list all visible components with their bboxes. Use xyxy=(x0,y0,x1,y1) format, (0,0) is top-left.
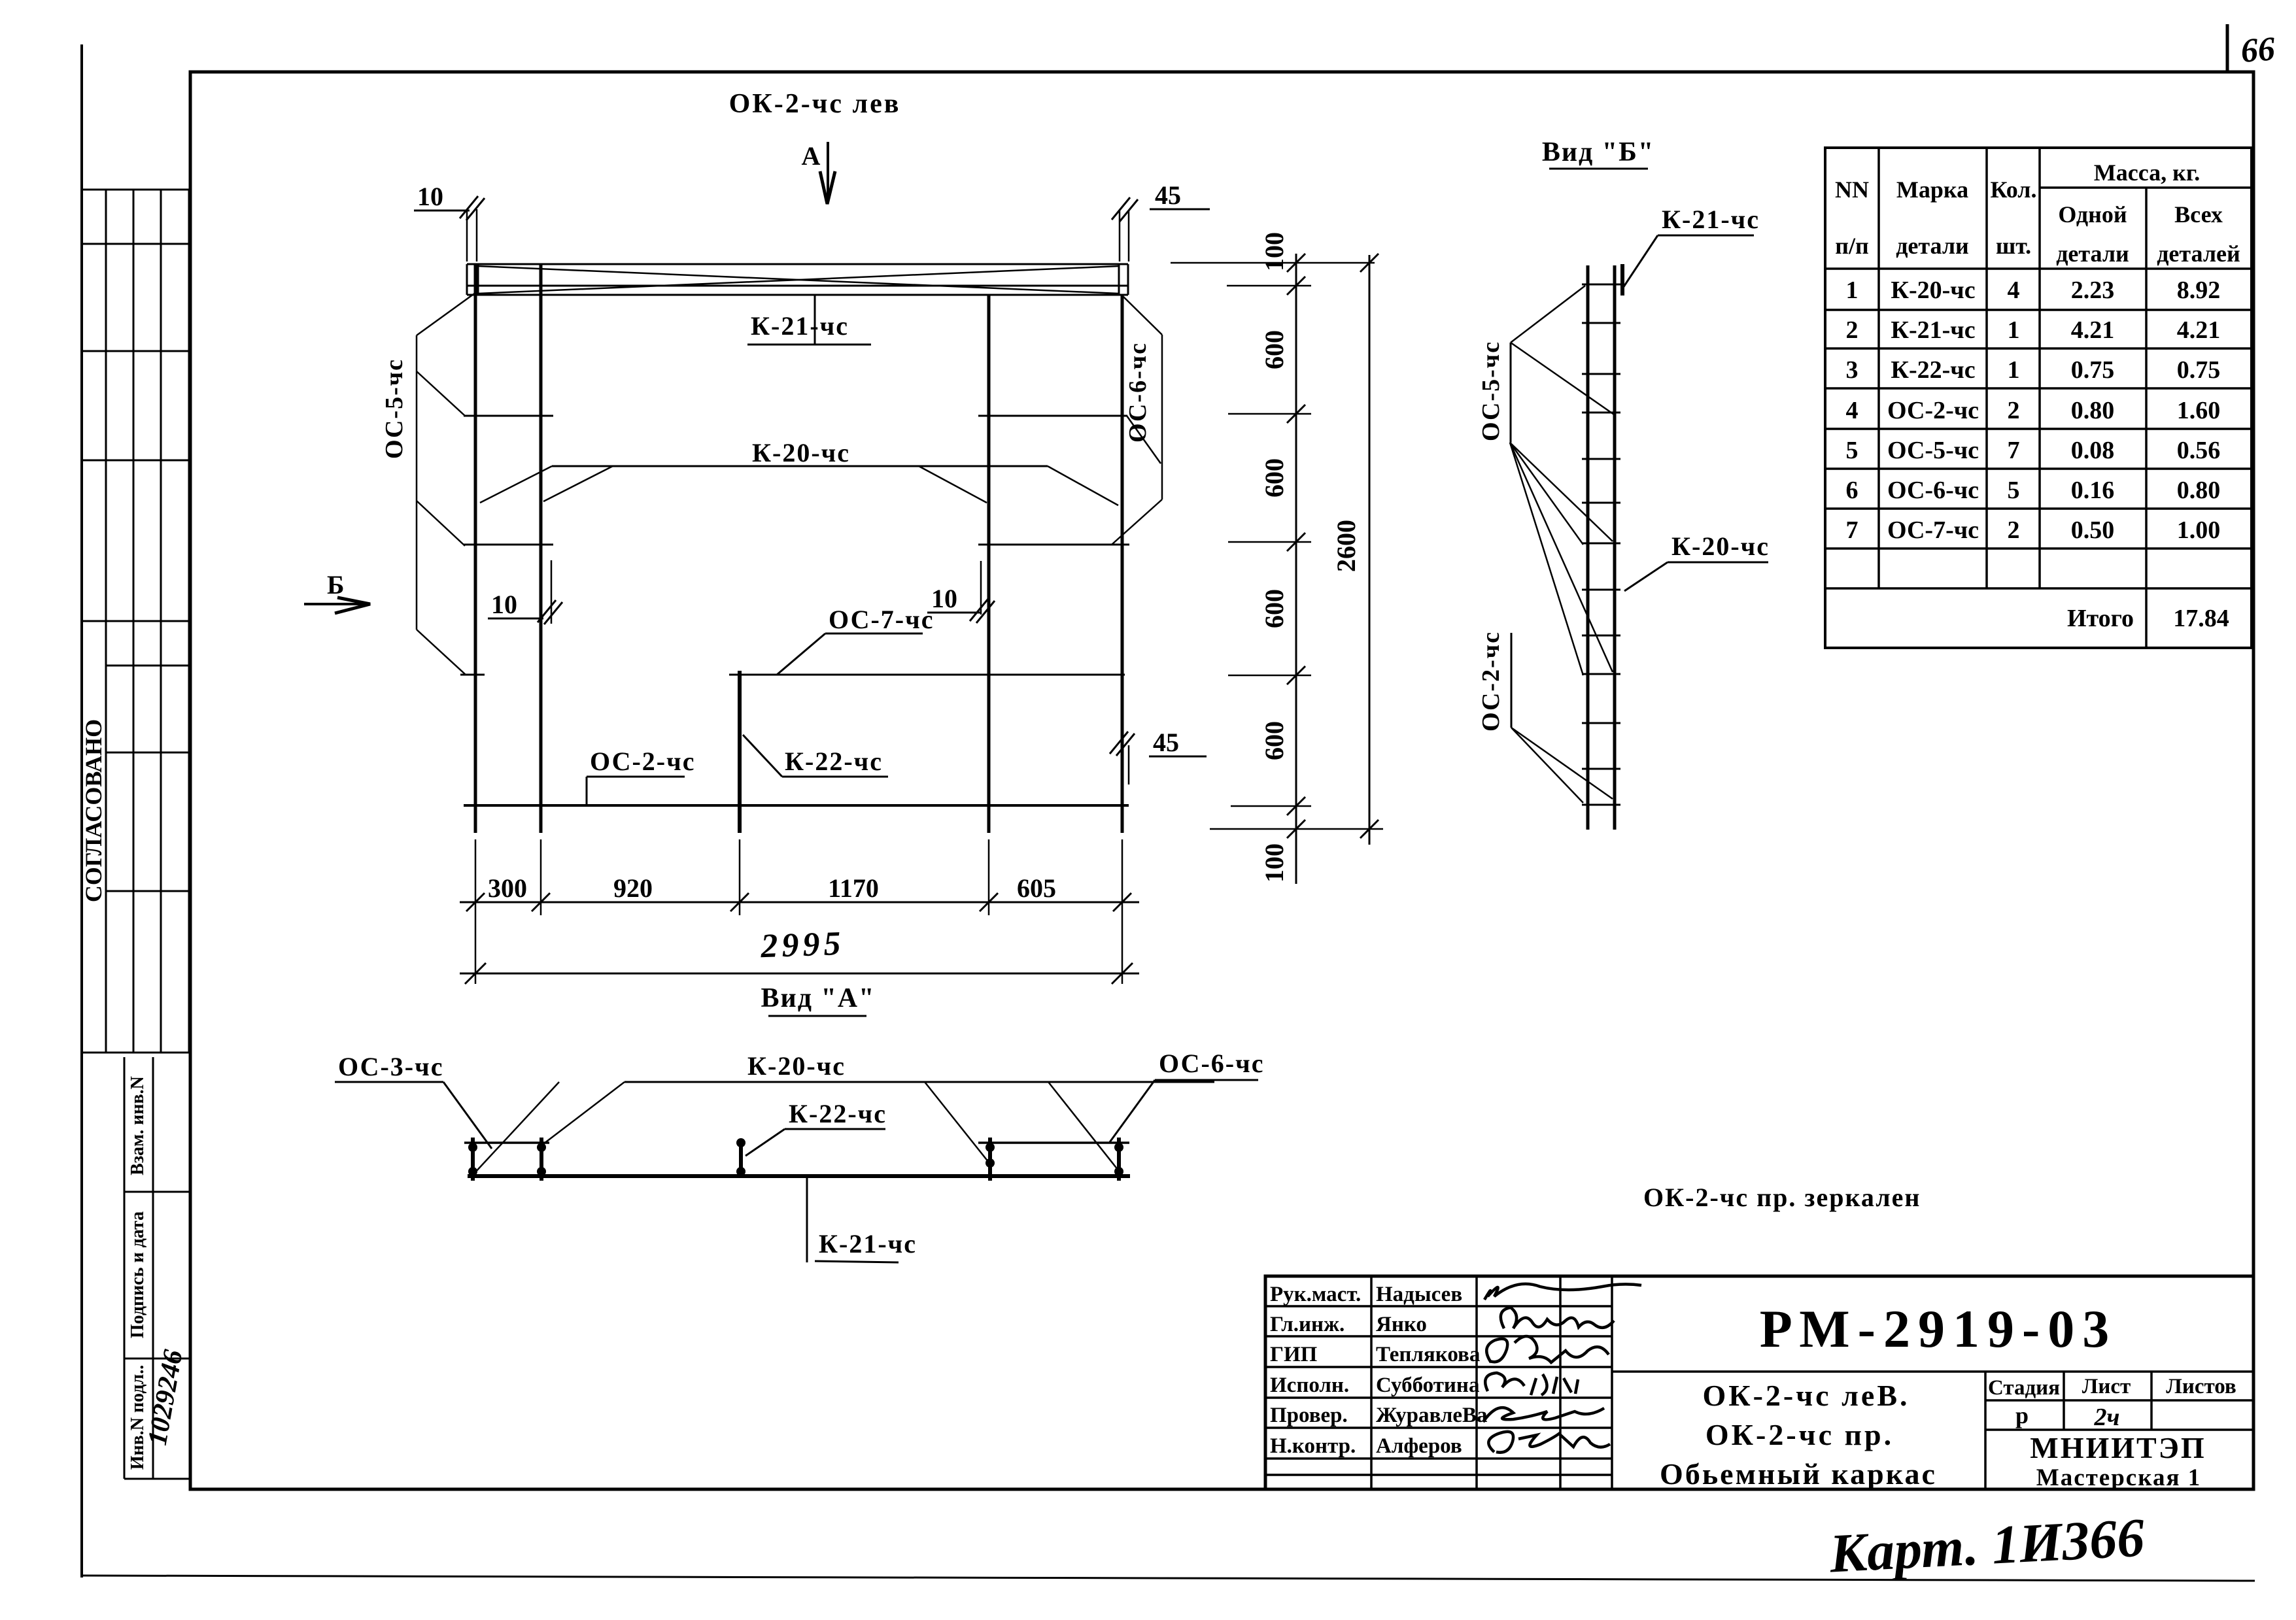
left margin stamp: full horizontals xyxy=(82,190,190,1053)
leader ОС-6-чс view A xyxy=(1110,1080,1155,1142)
svg-text:К-20-чс: К-20-чс xyxy=(1891,277,1975,304)
view A right box ticks xyxy=(988,1138,992,1181)
top beam left cap xyxy=(466,264,468,295)
svg-text:45: 45 xyxy=(1153,728,1179,757)
svg-text:1: 1 xyxy=(1846,277,1859,304)
lintel slant right outer xyxy=(1048,466,1118,505)
leader ОС-2-чс xyxy=(586,777,588,805)
right bracket OC-6: top slant xyxy=(1123,297,1162,335)
dim 10 mid-left extension line xyxy=(551,560,553,624)
svg-text:10: 10 xyxy=(931,584,957,613)
svg-text:Инв.N подл..: Инв.N подл.. xyxy=(128,1365,148,1470)
svg-text:10: 10 xyxy=(491,590,517,619)
svg-text:ОС-5-чс: ОС-5-чс xyxy=(1477,341,1505,441)
svg-text:1: 1 xyxy=(2008,316,2020,344)
svg-text:К-20-чс: К-20-чс xyxy=(1671,532,1770,561)
svg-text:Итого: Итого xyxy=(2067,605,2134,632)
svg-text:2ч: 2ч xyxy=(2094,1404,2120,1431)
signature squiggle Теплякова xyxy=(1486,1336,1609,1362)
lintel slant left inner xyxy=(543,466,613,501)
svg-text:0.56: 0.56 xyxy=(2177,437,2221,464)
svg-text:1170: 1170 xyxy=(828,873,879,903)
svg-text:Рук.маст.: Рук.маст. xyxy=(1270,1283,1361,1306)
svg-text:МНИИТЭП: МНИИТЭП xyxy=(2030,1431,2206,1464)
parts table column verticals xyxy=(1879,148,2146,648)
svg-text:Мастерская 1: Мастерская 1 xyxy=(2036,1464,2201,1491)
left bracket OC-5: outer vertical xyxy=(416,335,418,630)
left bracket OC-5: inner slant lower xyxy=(417,501,465,546)
svg-text:3: 3 xyxy=(1846,356,1859,384)
window line upper right xyxy=(978,415,1127,417)
view A top line xyxy=(625,1081,1214,1083)
view A bottom plate K-21 xyxy=(468,1174,1130,1178)
window line upper left xyxy=(464,415,553,417)
leader К-21-чс xyxy=(814,295,816,345)
svg-text:66: 66 xyxy=(2240,30,2276,69)
leader К-22-чс xyxy=(743,735,782,777)
svg-text:5: 5 xyxy=(1846,437,1859,464)
sill line OC-7 xyxy=(729,674,1125,676)
signature squiggle Журавлева xyxy=(1483,1408,1604,1422)
ОС-5-чс leaders lower bundle xyxy=(1510,443,1583,545)
svg-text:ОС-6-чс: ОС-6-чс xyxy=(1159,1049,1264,1078)
svg-text:0.08: 0.08 xyxy=(2071,437,2115,464)
leader К-21-чс view A xyxy=(806,1177,808,1262)
ОС-5-чс leaders upper bundle xyxy=(1511,286,1585,343)
svg-text:ГИП: ГИП xyxy=(1270,1343,1318,1366)
svg-text:р: р xyxy=(2015,1402,2029,1428)
leader К-22-чс view A xyxy=(745,1129,785,1156)
svg-text:детали: детали xyxy=(1896,233,1969,259)
svg-text:2: 2 xyxy=(1846,316,1859,344)
svg-text:А: А xyxy=(802,141,821,171)
svg-text:2600: 2600 xyxy=(1331,520,1361,572)
sill stub at left column xyxy=(460,674,485,676)
right bracket OC-6: inner slant xyxy=(1127,416,1161,464)
svg-text:2.23: 2.23 xyxy=(2071,277,2115,304)
table row 7 xyxy=(1846,516,2221,544)
lintel K-20-chs xyxy=(552,465,1048,467)
view A slant left a xyxy=(474,1082,559,1173)
svg-text:Обьемный каркас: Обьемный каркас xyxy=(1660,1457,1937,1491)
table row 6 xyxy=(1846,477,2221,504)
svg-text:Б: Б xyxy=(327,570,344,599)
page left edge line xyxy=(80,44,83,1578)
svg-text:ОС-2-чс: ОС-2-чс xyxy=(1887,397,1979,424)
svg-text:10: 10 xyxy=(417,182,443,211)
svg-text:ЖуравлеВа: ЖуравлеВа xyxy=(1376,1404,1488,1427)
svg-text:2: 2 xyxy=(2008,516,2020,544)
window line lower right xyxy=(978,544,1129,546)
column C4 xyxy=(987,295,991,833)
leader ОС-7-чс xyxy=(777,633,825,675)
svg-text:Листов: Листов xyxy=(2166,1375,2236,1398)
svg-text:Гл.инж.: Гл.инж. xyxy=(1270,1313,1345,1336)
top beam top line xyxy=(467,263,1128,265)
left margin stamp: partial horizontals beside vertical text xyxy=(106,666,190,891)
lintel slant left outer xyxy=(480,466,552,503)
dim 45 top-right extension lines xyxy=(1119,211,1121,262)
svg-text:2: 2 xyxy=(2008,397,2020,424)
svg-text:детали: детали xyxy=(2056,241,2129,267)
left bracket OC-5: inner slant upper xyxy=(417,371,465,416)
top beam middle line xyxy=(467,285,1128,287)
view A corner dots xyxy=(468,1143,1123,1176)
svg-text:Всех: Всех xyxy=(2174,201,2223,228)
svg-text:деталей: деталей xyxy=(2157,241,2240,267)
svg-text:ОС-6-чс: ОС-6-чс xyxy=(1887,477,1979,504)
svg-text:К-21-чс: К-21-чс xyxy=(819,1229,917,1258)
svg-text:Стадия: Стадия xyxy=(1988,1376,2060,1400)
section arrow A xyxy=(827,142,829,203)
left bracket OC-5: top slant xyxy=(417,291,478,335)
ticks row1 xyxy=(466,893,1131,911)
svg-text:8.92: 8.92 xyxy=(2177,277,2221,304)
svg-text:ОС-6-чс: ОС-6-чс xyxy=(1124,342,1152,443)
svg-text:шт.: шт. xyxy=(1996,233,2031,259)
view A slant right a xyxy=(925,1082,989,1162)
view A left box top edge xyxy=(464,1141,549,1144)
ladder right rail xyxy=(1613,265,1617,830)
svg-text:Н.контр.: Н.контр. xyxy=(1270,1434,1356,1458)
table row 5 xyxy=(1846,437,2221,464)
table row 4 xyxy=(1846,397,2221,424)
svg-text:К-21-чс: К-21-чс xyxy=(751,311,849,341)
title block outer border xyxy=(1265,1276,2253,1489)
parts table row lines xyxy=(1825,269,2252,588)
parts table outer border xyxy=(1825,148,2252,648)
svg-text:4: 4 xyxy=(2008,277,2020,304)
svg-text:ОС-3-чс: ОС-3-чс xyxy=(338,1052,443,1081)
view A right box top edge xyxy=(978,1141,1129,1144)
right vertical dim chain xyxy=(1295,254,1297,884)
svg-text:1.00: 1.00 xyxy=(2177,516,2221,544)
ladder left rail xyxy=(1586,265,1590,830)
svg-text:300: 300 xyxy=(488,873,527,903)
window line lower left xyxy=(464,544,553,546)
signature squiggle Янко xyxy=(1501,1308,1614,1328)
right bracket OC-6: bottom slant xyxy=(1112,499,1162,545)
bottom chord xyxy=(464,804,1129,807)
svg-text:Кол.: Кол. xyxy=(1990,177,2036,203)
right bracket OC-6: outer vertical xyxy=(1161,335,1163,499)
title block verticals xyxy=(1371,1276,2151,1489)
ladder rungs xyxy=(1582,284,1620,805)
К-22 column mark view A xyxy=(739,1139,743,1175)
svg-text:7: 7 xyxy=(1846,516,1859,544)
chain ticks xyxy=(1287,254,1305,838)
left margin stamp: column verticals xyxy=(106,190,189,1053)
svg-text:ОК-2-чс пр.: ОК-2-чс пр. xyxy=(1705,1418,1894,1451)
svg-text:ОК-2-чс пр. зеркален: ОК-2-чс пр. зеркален xyxy=(1643,1183,1921,1212)
svg-text:4.21: 4.21 xyxy=(2177,316,2221,344)
svg-text:0.75: 0.75 xyxy=(2177,356,2221,384)
dim 45 right-low extension line xyxy=(1128,745,1130,785)
sheet corner tick xyxy=(2226,24,2229,72)
view A slant left b xyxy=(541,1082,625,1145)
signature rows labels xyxy=(1270,1283,1488,1458)
table row 3 xyxy=(1846,356,2221,384)
svg-text:Одной: Одной xyxy=(2058,201,2127,228)
svg-text:1: 1 xyxy=(2008,356,2020,384)
section arrow B xyxy=(304,603,369,605)
title block horizontals left xyxy=(1265,1306,1612,1475)
svg-text:Алферов: Алферов xyxy=(1376,1434,1462,1458)
svg-text:Лист: Лист xyxy=(2082,1375,2131,1398)
svg-text:100: 100 xyxy=(1259,232,1289,271)
table row 2 xyxy=(1846,316,2221,344)
column C5 xyxy=(1121,295,1124,833)
svg-text:7: 7 xyxy=(2008,437,2020,464)
page bottom edge line xyxy=(82,1576,2255,1581)
leader К-20-чс view B xyxy=(1624,562,1668,591)
svg-text:Провер.: Провер. xyxy=(1270,1404,1348,1427)
K-21 end plate xyxy=(1620,264,1624,295)
svg-text:ОС-7-чс: ОС-7-чс xyxy=(829,605,934,634)
signature squiggle Субботина xyxy=(1485,1373,1578,1395)
left margin bottom block cells xyxy=(124,1057,190,1479)
bottom dimension line row2 overall xyxy=(460,973,1139,975)
column C3 middle short xyxy=(738,671,742,833)
view A slant right b xyxy=(1048,1082,1118,1170)
top beam bottom line xyxy=(467,294,1128,296)
svg-text:920: 920 xyxy=(613,873,653,903)
svg-text:0.50: 0.50 xyxy=(2071,516,2115,544)
svg-text:Масса, кг.: Масса, кг. xyxy=(2094,160,2200,186)
svg-text:К-20-чс: К-20-чс xyxy=(752,438,850,467)
svg-text:4.21: 4.21 xyxy=(2071,316,2115,344)
signature squiggle Алферов xyxy=(1488,1432,1610,1453)
svg-text:600: 600 xyxy=(1259,330,1289,369)
svg-text:К-21-чс: К-21-чс xyxy=(1662,205,1760,234)
svg-text:Исполн.: Исполн. xyxy=(1270,1374,1349,1397)
left bracket OC-5: bottom slant xyxy=(417,630,466,675)
svg-text:Вид "Б": Вид "Б" xyxy=(1542,137,1654,167)
overall chain 2600 xyxy=(1369,255,1371,845)
column C2 xyxy=(540,264,543,833)
svg-text:600: 600 xyxy=(1259,589,1289,628)
dim 10 top-left extension lines xyxy=(466,209,468,262)
svg-text:Подпись и дата: Подпись и дата xyxy=(128,1211,148,1338)
column C1 xyxy=(474,264,477,833)
parts table header split line xyxy=(2040,186,2252,189)
svg-text:Теплякова: Теплякова xyxy=(1376,1343,1480,1366)
lintel slant right inner xyxy=(919,466,987,503)
bottom dim extension lines xyxy=(475,839,1122,984)
svg-text:0.80: 0.80 xyxy=(2071,397,2115,424)
chain extension lines xyxy=(1171,263,1383,829)
svg-text:0.16: 0.16 xyxy=(2071,477,2115,504)
svg-text:5: 5 xyxy=(2008,477,2020,504)
svg-text:100: 100 xyxy=(1259,843,1289,883)
svg-text:К-20-чс: К-20-чс xyxy=(747,1051,846,1081)
leader ОС-3-чс xyxy=(443,1082,492,1149)
svg-text:Надысев: Надысев xyxy=(1376,1283,1462,1306)
svg-text:РМ-2919-03: РМ-2919-03 xyxy=(1760,1299,2117,1358)
svg-text:ОС-2-чс: ОС-2-чс xyxy=(590,747,695,776)
leader К-21-чс view B xyxy=(1623,235,1658,288)
svg-text:17.84: 17.84 xyxy=(2173,605,2229,632)
top beam right cap xyxy=(1118,264,1120,295)
svg-text:ОК-2-чс лев: ОК-2-чс лев xyxy=(729,89,901,119)
svg-text:п/п: п/п xyxy=(1835,233,1869,259)
svg-text:6: 6 xyxy=(1846,477,1859,504)
svg-text:0.75: 0.75 xyxy=(2071,356,2115,384)
svg-text:2995: 2995 xyxy=(759,925,845,965)
signature squiggle Надысев xyxy=(1484,1284,1641,1300)
svg-text:Марка: Марка xyxy=(1896,177,1968,203)
svg-text:ОС-2-чс: ОС-2-чс xyxy=(1477,631,1505,732)
svg-text:Янко: Янко xyxy=(1376,1313,1427,1336)
svg-text:ОС-7-чс: ОС-7-чс xyxy=(1887,516,1979,544)
drawing frame xyxy=(190,72,2253,1489)
dim 10 mid-right extension line xyxy=(980,561,982,615)
table row 1 xyxy=(1846,277,2221,304)
svg-text:К-22-чс: К-22-чс xyxy=(1891,356,1975,384)
svg-text:К-22-чс: К-22-чс xyxy=(789,1099,887,1128)
ОС-2-чс label line xyxy=(1511,633,1513,728)
svg-text:1.60: 1.60 xyxy=(2177,397,2221,424)
svg-text:Вид "А": Вид "А" xyxy=(761,983,876,1013)
svg-text:ОК-2-чс леВ.: ОК-2-чс леВ. xyxy=(1702,1379,1910,1412)
svg-text:0.80: 0.80 xyxy=(2177,477,2221,504)
svg-text:NN: NN xyxy=(1835,177,1869,203)
ОС-5-чс label line xyxy=(1510,343,1512,443)
svg-text:Взам. инв.N: Взам. инв.N xyxy=(128,1076,148,1175)
svg-text:ОС-5-чс: ОС-5-чс xyxy=(1887,437,1979,464)
svg-text:ОС-5-чс: ОС-5-чс xyxy=(381,358,408,459)
svg-text:К-22-чс: К-22-чс xyxy=(785,747,883,776)
bottom dimension line row1 xyxy=(460,902,1139,903)
top beam X brace xyxy=(478,266,1119,294)
svg-text:600: 600 xyxy=(1259,458,1289,498)
svg-text:К-21-чс: К-21-чс xyxy=(1891,316,1975,344)
title block horizontals right xyxy=(1612,1372,2253,1430)
svg-text:Субботина: Субботина xyxy=(1376,1374,1479,1397)
svg-text:4: 4 xyxy=(1846,397,1859,424)
ОС-2-чс leaders xyxy=(1511,728,1583,803)
svg-text:605: 605 xyxy=(1017,873,1056,903)
svg-text:600: 600 xyxy=(1259,721,1289,760)
svg-text:45: 45 xyxy=(1155,180,1181,210)
svg-text:СОГЛАСОВАНО: СОГЛАСОВАНО xyxy=(80,719,107,902)
view A left box ticks xyxy=(471,1138,475,1181)
